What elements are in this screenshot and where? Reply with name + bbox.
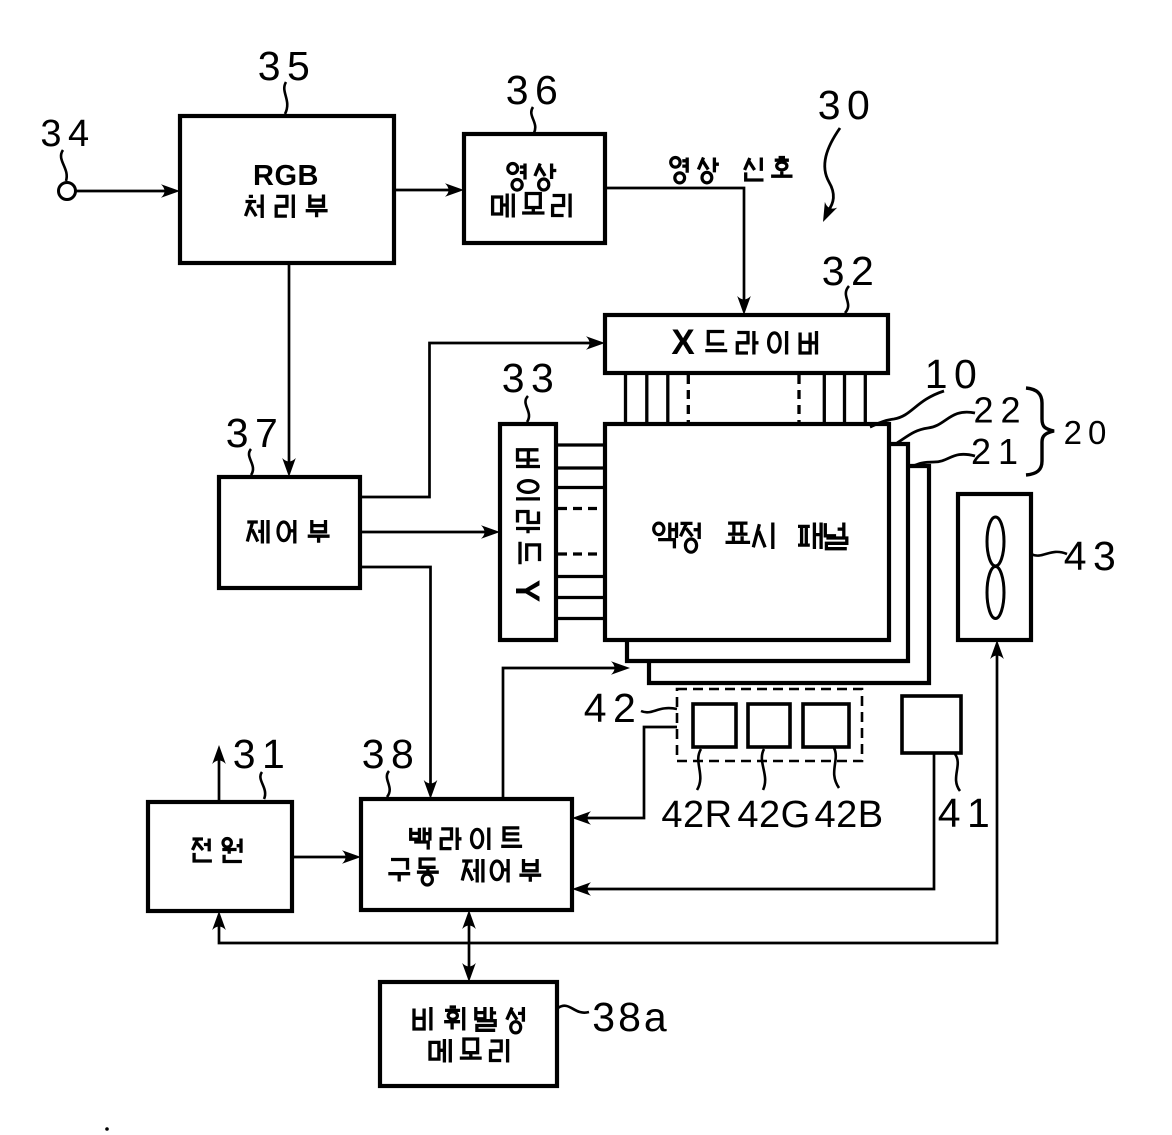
svg-text:37: 37 bbox=[226, 410, 285, 456]
svg-text:30: 30 bbox=[818, 82, 877, 128]
svg-text:34: 34 bbox=[40, 113, 95, 155]
svg-text:RGB: RGB bbox=[253, 160, 319, 192]
svg-text:20: 20 bbox=[1064, 414, 1113, 451]
svg-text:42: 42 bbox=[584, 685, 643, 731]
svg-text:32: 32 bbox=[822, 248, 881, 294]
svg-text:36: 36 bbox=[506, 67, 565, 113]
svg-text:38: 38 bbox=[362, 731, 421, 777]
svg-text:38a: 38a bbox=[592, 994, 669, 1040]
svg-text:31: 31 bbox=[233, 731, 292, 777]
svg-text:35: 35 bbox=[258, 43, 317, 89]
svg-text:Y: Y bbox=[508, 580, 546, 603]
svg-text:22: 22 bbox=[973, 390, 1027, 431]
svg-text:43: 43 bbox=[1064, 533, 1123, 579]
svg-text:33: 33 bbox=[502, 355, 561, 401]
svg-text:21: 21 bbox=[971, 431, 1025, 472]
svg-text:X: X bbox=[671, 323, 695, 362]
svg-text:41: 41 bbox=[938, 790, 997, 836]
svg-text:42G: 42G bbox=[737, 794, 810, 836]
svg-text:42B: 42B bbox=[814, 794, 883, 836]
svg-text:42R: 42R bbox=[661, 794, 732, 836]
